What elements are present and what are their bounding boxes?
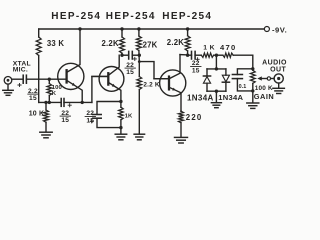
node limiter top <box>215 67 218 70</box>
svg-text:100 K: 100 K <box>255 85 273 92</box>
svg-text:2.2 K: 2.2 K <box>143 81 159 88</box>
capacitor C6 0.1 <box>237 69 252 75</box>
svg-text:2.2K: 2.2K <box>167 38 184 47</box>
ground mic <box>7 84 9 90</box>
svg-text:1N34A: 1N34A <box>187 94 214 103</box>
resistor R9 1K output <box>201 53 213 57</box>
svg-text:10 K: 10 K <box>29 110 45 117</box>
transistor Q2 HEP-254 <box>99 67 124 92</box>
svg-text:470: 470 <box>220 43 237 52</box>
transistor Q1 HEP-254 <box>58 63 84 89</box>
terminal -9V <box>264 27 269 32</box>
svg-text:15: 15 <box>126 69 134 76</box>
terminal output small <box>267 77 270 80</box>
resistor R4 2.2K Q2 collector <box>120 27 123 30</box>
pot wiper arrow <box>261 78 267 80</box>
ground pot <box>252 91 254 103</box>
ground 220 <box>175 136 188 138</box>
resistor R10 470 <box>223 53 233 57</box>
node Q1 collector rail <box>78 27 81 30</box>
node 10K tap <box>44 101 47 104</box>
capacitor C4 22/15 Q2 bypass <box>97 102 121 115</box>
diode D2 1N34A right <box>225 69 227 75</box>
wire 470 to pot <box>233 55 253 69</box>
wire Q3 collector stub <box>180 54 188 56</box>
wire to jack <box>271 78 274 80</box>
capacitor C2 22/15 stage1 <box>60 99 62 107</box>
node Q3 bias tap <box>138 60 141 63</box>
svg-text:K: K <box>52 91 57 97</box>
node Q1 emitter <box>81 101 84 104</box>
svg-text:GAIN: GAIN <box>254 92 274 101</box>
resistor R5 27K <box>137 27 140 30</box>
wire C3 to 27K node <box>132 54 139 56</box>
wire diode bottom bus <box>207 90 226 92</box>
node pot ground <box>251 89 254 92</box>
node Q1 base junction <box>48 78 51 81</box>
wire -9V top rail <box>39 28 265 30</box>
wire bias node <box>39 101 62 103</box>
node 100K tap <box>48 101 51 104</box>
capacitor C5 22/15 output coupling <box>188 54 192 56</box>
svg-text:15: 15 <box>29 95 37 102</box>
svg-text:2.2K: 2.2K <box>102 39 119 48</box>
capacitor C3 22/15 coupling Q1-Q2 <box>122 54 129 56</box>
capacitor C1 2.2/15 input <box>18 83 21 86</box>
svg-text:33 K: 33 K <box>47 39 64 48</box>
resistor R2 100K base <box>48 79 50 83</box>
svg-text:1 K: 1 K <box>203 45 215 52</box>
node diode ground <box>215 90 218 93</box>
wire C5 to R9 <box>195 54 201 56</box>
node 27K coupling tap <box>138 54 141 57</box>
wire limiter drop <box>215 55 217 69</box>
potentiometer R11 100K GAIN <box>251 67 254 70</box>
svg-text:1K: 1K <box>125 114 133 120</box>
ground jack <box>278 83 280 88</box>
svg-text:27K: 27K <box>143 41 158 50</box>
resistor R12 220 Q3 emitter <box>180 110 182 112</box>
connector XTAL MIC <box>4 77 12 85</box>
diode D1 1N34A left <box>206 69 208 76</box>
svg-text:OUT: OUT <box>270 66 286 73</box>
wire diode top bus <box>207 68 226 70</box>
svg-text:HEP-254: HEP-254 <box>106 11 156 22</box>
svg-text:15: 15 <box>192 68 200 75</box>
svg-text:-9V.: -9V. <box>272 25 287 34</box>
node Q2 emitter ground <box>119 126 122 129</box>
svg-text:HEP-254: HEP-254 <box>162 11 212 22</box>
wire mic to C1 <box>12 78 23 80</box>
svg-text:MIC.: MIC. <box>13 67 28 74</box>
resistor R7 1K Q2 emitter <box>120 102 122 108</box>
svg-text:15: 15 <box>61 117 69 124</box>
node Q2 emitter <box>119 100 122 103</box>
svg-text:1N34A: 1N34A <box>218 93 243 102</box>
transistor Q3 HEP-254 <box>160 70 186 96</box>
node Q2 collector coupling <box>120 54 123 57</box>
wire C2 to Q1 emitter node <box>64 101 92 103</box>
connector AUDIO OUT jack <box>274 74 283 83</box>
wire C1 to Q1 base <box>26 78 66 80</box>
svg-text:HEP-254: HEP-254 <box>51 11 101 22</box>
ground 2.2K bias <box>134 133 145 135</box>
ground Q2 emitter <box>115 133 127 135</box>
wire Q1 emitter to Q2 base <box>92 76 108 102</box>
resistor R8 2.2K Q3 collector <box>186 27 189 30</box>
svg-text:0.1: 0.1 <box>239 84 247 90</box>
node limiter tap <box>215 54 218 57</box>
wire bias to Q3 base <box>139 62 169 79</box>
resistor R1 33K <box>38 29 40 37</box>
node Q3 collector <box>186 54 189 57</box>
resistor R3 10K <box>45 102 47 110</box>
svg-text:15: 15 <box>86 118 94 125</box>
resistor R6 2.2K Q3 bias <box>138 62 140 77</box>
ground diodes <box>215 91 217 102</box>
svg-text:220: 220 <box>186 113 203 122</box>
ground 10K <box>40 131 52 133</box>
